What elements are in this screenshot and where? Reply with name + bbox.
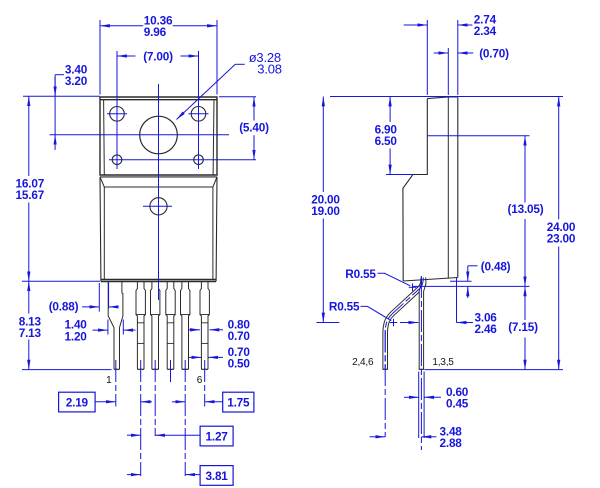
svg-text:2.34: 2.34 (474, 24, 497, 38)
svg-text:7.13: 7.13 (19, 326, 42, 340)
svg-text:15.67: 15.67 (16, 188, 45, 202)
svg-text:2.46: 2.46 (475, 322, 498, 336)
svg-text:6.50: 6.50 (375, 134, 398, 148)
svg-text:2.19: 2.19 (66, 395, 89, 409)
svg-text:(0.70): (0.70) (479, 46, 509, 60)
svg-text:(7.00): (7.00) (143, 49, 173, 63)
svg-text:0.45: 0.45 (446, 397, 469, 411)
svg-text:R0.55: R0.55 (345, 267, 376, 281)
svg-text:0.50: 0.50 (228, 357, 251, 371)
svg-text:1: 1 (106, 375, 112, 386)
svg-text:(0.48): (0.48) (481, 259, 511, 273)
svg-text:(0.88): (0.88) (49, 300, 79, 314)
svg-text:2.88: 2.88 (440, 436, 463, 450)
svg-text:19.00: 19.00 (311, 204, 340, 218)
svg-text:(7.15): (7.15) (508, 320, 538, 334)
svg-text:(13.05): (13.05) (508, 202, 544, 216)
svg-text:R0.55: R0.55 (329, 300, 360, 314)
svg-text:2,4,6: 2,4,6 (352, 357, 374, 368)
svg-text:1.27: 1.27 (206, 429, 229, 443)
svg-text:3.20: 3.20 (65, 74, 88, 88)
svg-text:23.00: 23.00 (547, 232, 576, 246)
svg-text:1.75: 1.75 (227, 395, 250, 409)
svg-text:0.70: 0.70 (228, 329, 251, 343)
svg-text:3.81: 3.81 (206, 469, 229, 483)
svg-text:9.96: 9.96 (144, 25, 167, 39)
svg-text:6: 6 (197, 375, 203, 386)
svg-text:1.20: 1.20 (65, 329, 88, 343)
svg-text:(5.40): (5.40) (239, 120, 269, 134)
svg-text:1,3,5: 1,3,5 (432, 357, 454, 368)
svg-text:3.08: 3.08 (257, 62, 282, 77)
